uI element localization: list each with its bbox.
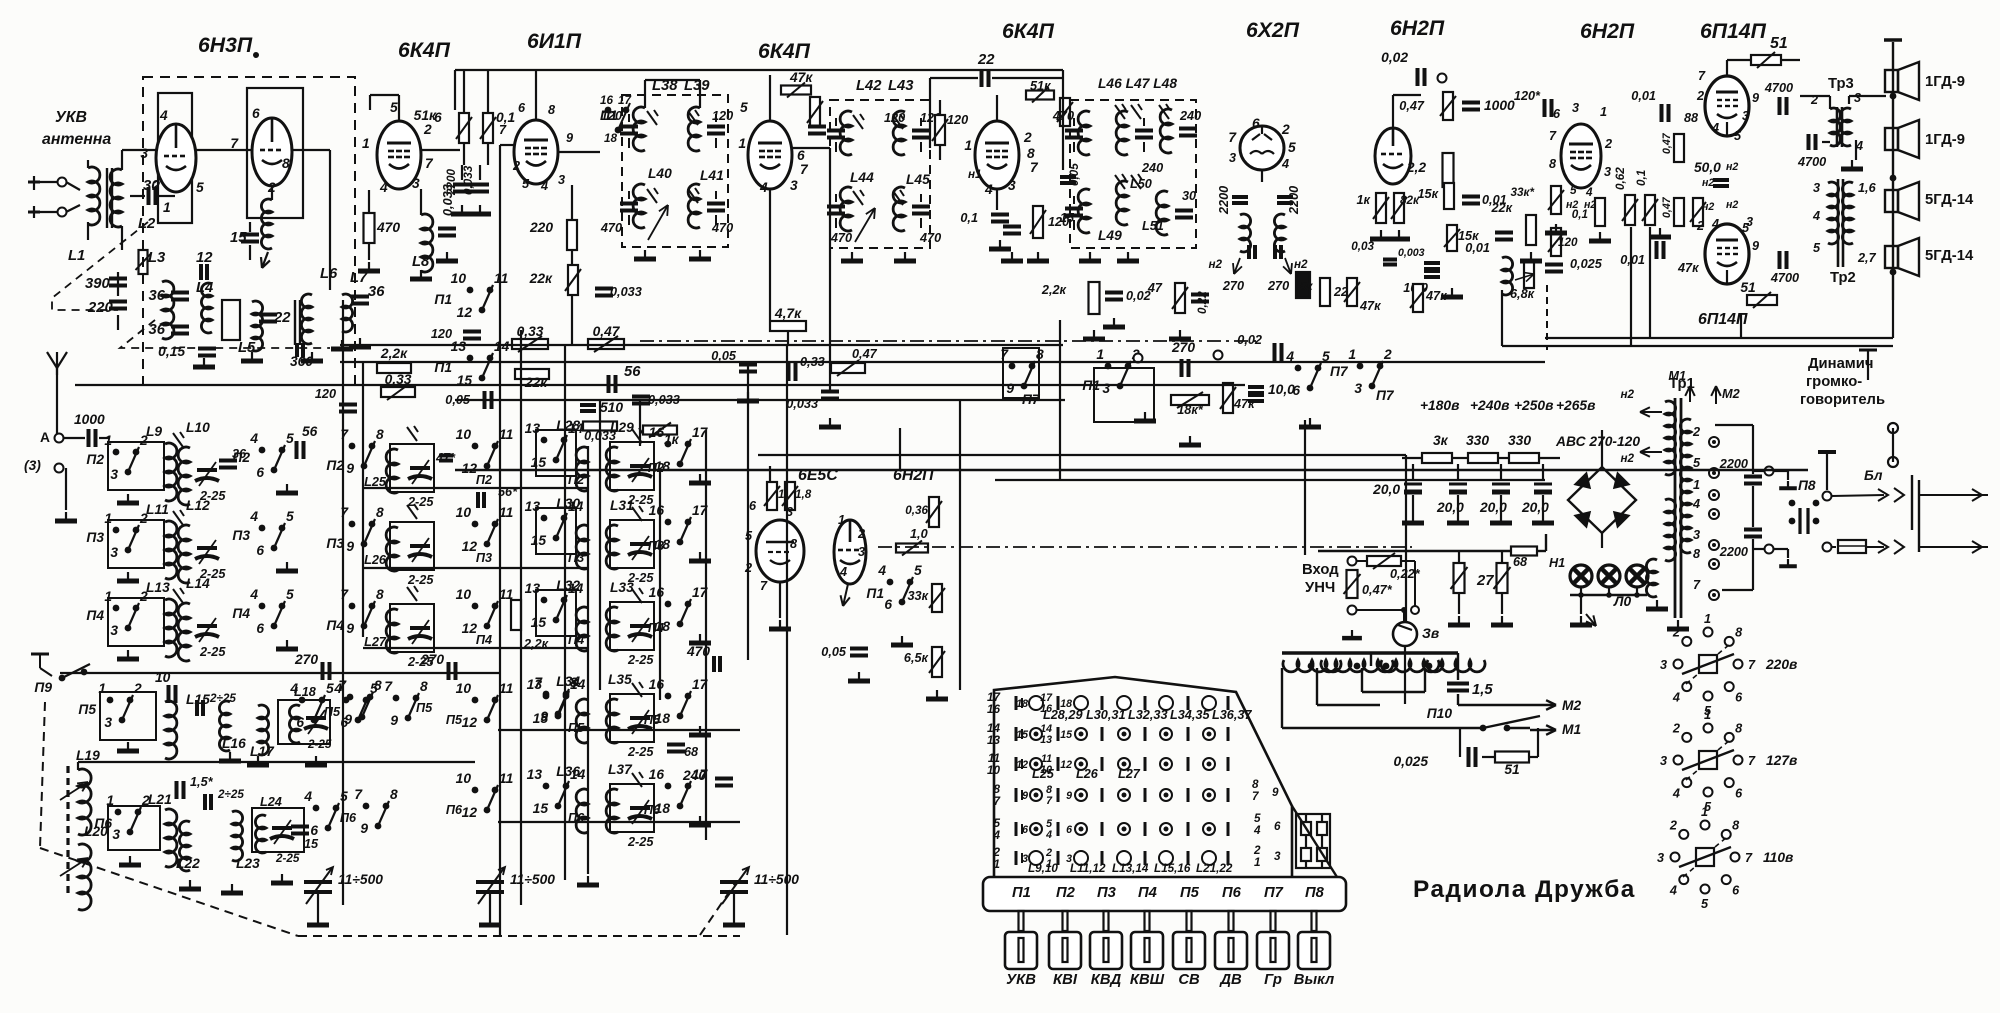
svg-text:36: 36 — [149, 288, 166, 304]
svg-text:11÷500: 11÷500 — [754, 872, 799, 887]
svg-text:16: 16 — [649, 425, 665, 440]
svg-text:М2: М2 — [1562, 698, 1581, 713]
svg-text:4: 4 — [992, 829, 1000, 842]
svg-text:4: 4 — [1672, 787, 1680, 801]
svg-text:L41: L41 — [700, 168, 724, 183]
svg-text:36: 36 — [149, 322, 166, 338]
svg-text:11: 11 — [499, 427, 513, 442]
svg-text:П7: П7 — [1264, 885, 1284, 901]
svg-text:5: 5 — [1701, 897, 1709, 911]
svg-text:1000: 1000 — [74, 412, 105, 427]
svg-text:7: 7 — [1693, 578, 1701, 592]
svg-text:Н1: Н1 — [1549, 556, 1565, 570]
svg-text:5: 5 — [1570, 184, 1577, 197]
svg-text:11÷500: 11÷500 — [510, 872, 555, 887]
svg-text:П4: П4 — [326, 618, 344, 633]
svg-text:2-25: 2-25 — [627, 653, 654, 667]
svg-text:6: 6 — [1732, 884, 1740, 898]
svg-text:КВI: КВI — [1053, 972, 1078, 988]
svg-text:6: 6 — [256, 621, 264, 636]
svg-text:L21,22: L21,22 — [1196, 862, 1233, 875]
svg-text:L34,35: L34,35 — [1170, 708, 1210, 722]
svg-text:47к: 47к — [789, 70, 813, 85]
svg-text:56: 56 — [624, 364, 641, 380]
svg-text:7: 7 — [1698, 69, 1706, 83]
svg-text:6: 6 — [1735, 691, 1743, 705]
svg-text:6И1П: 6И1П — [527, 30, 582, 53]
svg-text:1: 1 — [964, 138, 972, 153]
svg-text:2: 2 — [1383, 347, 1392, 362]
svg-text:1: 1 — [104, 511, 112, 526]
svg-text:5ГД-14: 5ГД-14 — [1925, 248, 1974, 264]
svg-text:2200: 2200 — [1719, 545, 1748, 559]
svg-text:127в: 127в — [1766, 753, 1797, 768]
svg-text:18к*: 18к* — [1177, 403, 1204, 417]
svg-text:36: 36 — [232, 447, 247, 461]
svg-text:9: 9 — [390, 713, 398, 728]
svg-text:10,0: 10,0 — [1268, 382, 1295, 397]
svg-text:4: 4 — [249, 587, 258, 602]
svg-text:6К4П: 6К4П — [1002, 20, 1055, 43]
svg-text:3: 3 — [412, 176, 420, 191]
svg-text:П5: П5 — [446, 713, 463, 727]
svg-text:L44: L44 — [850, 170, 874, 185]
svg-text:13: 13 — [525, 499, 541, 514]
svg-text:2-25: 2-25 — [407, 495, 434, 509]
svg-text:7: 7 — [340, 427, 349, 442]
svg-text:7: 7 — [340, 505, 349, 520]
svg-text:470: 470 — [711, 221, 733, 235]
svg-text:0,1: 0,1 — [1572, 208, 1588, 221]
svg-text:5: 5 — [326, 681, 334, 696]
svg-text:4: 4 — [1253, 824, 1261, 837]
svg-text:12: 12 — [1060, 759, 1072, 771]
svg-text:120: 120 — [947, 113, 968, 127]
svg-text:L36,37: L36,37 — [1212, 708, 1252, 722]
svg-text:3: 3 — [1813, 181, 1820, 195]
svg-text:10: 10 — [456, 505, 472, 520]
svg-text:2-25: 2-25 — [407, 573, 434, 587]
svg-text:КВД: КВД — [1091, 972, 1122, 988]
svg-text:1000: 1000 — [1484, 98, 1515, 113]
svg-text:0,47: 0,47 — [1661, 132, 1673, 154]
svg-text:3: 3 — [1229, 151, 1236, 165]
svg-text:330: 330 — [1508, 433, 1531, 448]
svg-text:н2: н2 — [1208, 258, 1222, 271]
svg-text:П8: П8 — [1798, 478, 1816, 493]
svg-text:П2: П2 — [86, 452, 104, 467]
svg-text:3: 3 — [1746, 215, 1753, 229]
svg-text:П6: П6 — [644, 803, 661, 817]
svg-text:3: 3 — [1657, 851, 1664, 865]
svg-text:6: 6 — [1066, 824, 1072, 836]
svg-text:13: 13 — [525, 581, 541, 596]
svg-text:П4: П4 — [86, 608, 104, 623]
svg-text:L51: L51 — [1142, 219, 1164, 233]
svg-text:15: 15 — [531, 455, 547, 470]
svg-text:15: 15 — [531, 533, 547, 548]
svg-text:8: 8 — [548, 103, 556, 117]
svg-text:4: 4 — [379, 180, 388, 195]
svg-text:0,05: 0,05 — [821, 645, 847, 659]
svg-text:М1: М1 — [1562, 722, 1581, 737]
svg-text:120: 120 — [315, 387, 336, 401]
svg-text:0,22: 0,22 — [1196, 291, 1209, 314]
svg-text:0,01: 0,01 — [1631, 89, 1656, 103]
svg-text:13: 13 — [451, 339, 467, 354]
svg-text:3: 3 — [1854, 91, 1861, 105]
svg-text:6: 6 — [296, 715, 304, 730]
svg-text:9: 9 — [1022, 790, 1028, 802]
svg-text:120: 120 — [884, 111, 905, 125]
svg-text:П6: П6 — [446, 803, 463, 817]
svg-text:22к: 22к — [529, 271, 553, 286]
svg-text:240: 240 — [682, 768, 706, 783]
svg-text:L30,31: L30,31 — [1086, 708, 1126, 722]
svg-text:5: 5 — [286, 509, 294, 524]
svg-text:20,0: 20,0 — [1521, 500, 1549, 515]
svg-text:5: 5 — [1813, 241, 1821, 255]
svg-text:Вход: Вход — [1302, 562, 1339, 578]
svg-text:Гр: Гр — [1264, 972, 1282, 988]
svg-text:1: 1 — [1701, 805, 1708, 819]
svg-text:П3: П3 — [1097, 885, 1117, 901]
svg-text:9: 9 — [346, 461, 354, 476]
svg-text:П2: П2 — [1056, 885, 1076, 901]
svg-text:47к: 47к — [1359, 299, 1381, 313]
svg-text:0,02: 0,02 — [1237, 333, 1262, 347]
svg-text:7: 7 — [1030, 160, 1039, 175]
svg-text:0,02: 0,02 — [1381, 50, 1408, 65]
svg-text:10: 10 — [456, 427, 472, 442]
svg-text:L14: L14 — [186, 576, 210, 591]
svg-text:2,7: 2,7 — [1857, 251, 1877, 265]
svg-text:н2: н2 — [1620, 452, 1634, 465]
svg-text:L9,10: L9,10 — [1028, 862, 1058, 875]
svg-text:П3: П3 — [648, 539, 664, 553]
svg-text:0,47: 0,47 — [593, 324, 621, 339]
svg-text:15: 15 — [304, 837, 319, 851]
svg-text:4: 4 — [159, 108, 168, 123]
svg-text:2: 2 — [1023, 130, 1032, 145]
svg-text:3: 3 — [104, 715, 112, 730]
svg-text:33к*: 33к* — [1511, 186, 1535, 199]
svg-text:12: 12 — [462, 715, 478, 730]
svg-text:68: 68 — [684, 745, 699, 759]
svg-text:3: 3 — [1742, 109, 1749, 123]
svg-text:КВШ: КВШ — [1130, 972, 1165, 988]
svg-text:6: 6 — [1735, 787, 1743, 801]
svg-text:6Х2П: 6Х2П — [1246, 19, 1300, 42]
svg-text:0,01: 0,01 — [1620, 253, 1645, 267]
svg-text:+250в: +250в — [1514, 398, 1553, 413]
svg-text:2-25: 2-25 — [199, 645, 226, 659]
svg-text:390: 390 — [85, 276, 110, 292]
svg-text:27: 27 — [1476, 573, 1494, 589]
svg-text:3: 3 — [1693, 528, 1700, 542]
svg-text:П5: П5 — [644, 713, 661, 727]
svg-text:9: 9 — [1752, 91, 1759, 105]
svg-text:2-25: 2-25 — [307, 738, 332, 751]
svg-text:470: 470 — [919, 231, 941, 245]
svg-text:8: 8 — [376, 427, 384, 442]
svg-text:2,2к: 2,2к — [380, 346, 408, 361]
svg-text:3: 3 — [110, 467, 118, 482]
svg-text:0,1: 0,1 — [960, 211, 978, 225]
svg-text:L23: L23 — [236, 856, 260, 871]
svg-text:М1: М1 — [1668, 369, 1686, 383]
svg-text:3: 3 — [790, 178, 798, 193]
svg-text:L4: L4 — [196, 280, 213, 296]
svg-text:L1: L1 — [68, 248, 85, 264]
svg-text:10: 10 — [456, 771, 472, 786]
svg-text:L16: L16 — [222, 736, 246, 751]
svg-text:2,2: 2,2 — [1406, 160, 1427, 175]
svg-text:6: 6 — [797, 148, 805, 163]
svg-text:3: 3 — [110, 623, 118, 638]
svg-text:L15,16: L15,16 — [1154, 862, 1191, 875]
svg-text:Тр3: Тр3 — [1828, 76, 1854, 92]
svg-text:7: 7 — [1228, 130, 1237, 145]
svg-text:L32: L32 — [556, 578, 580, 593]
svg-text:8: 8 — [282, 156, 290, 171]
svg-text:н1: н1 — [968, 168, 982, 181]
svg-text:6: 6 — [252, 106, 260, 121]
svg-text:220: 220 — [529, 220, 553, 235]
svg-text:7: 7 — [534, 675, 543, 690]
svg-text:3: 3 — [140, 146, 148, 161]
svg-text:13: 13 — [525, 421, 541, 436]
svg-text:8: 8 — [1735, 721, 1743, 735]
svg-text:L28: L28 — [556, 418, 580, 433]
svg-text:4: 4 — [839, 565, 847, 579]
svg-text:4700: 4700 — [1797, 155, 1826, 169]
svg-text:20,0: 20,0 — [1479, 500, 1507, 515]
svg-text:4: 4 — [1585, 186, 1593, 199]
svg-text:3: 3 — [1572, 101, 1579, 115]
svg-text:5: 5 — [1288, 140, 1296, 155]
svg-text:ДВ: ДВ — [1218, 972, 1242, 988]
svg-text:2: 2 — [512, 159, 520, 173]
svg-text:2: 2 — [1604, 137, 1612, 151]
svg-text:120: 120 — [601, 109, 622, 123]
svg-text:4: 4 — [289, 681, 298, 696]
svg-text:1: 1 — [362, 136, 370, 151]
svg-text:4: 4 — [1692, 497, 1700, 511]
svg-text:120: 120 — [431, 327, 452, 341]
svg-text:L42: L42 — [856, 78, 882, 94]
svg-text:11: 11 — [499, 771, 513, 786]
svg-text:56: 56 — [302, 424, 318, 439]
svg-text:П1: П1 — [866, 586, 884, 601]
svg-text:L35: L35 — [608, 672, 632, 687]
svg-text:11: 11 — [499, 505, 513, 520]
svg-text:6: 6 — [256, 465, 264, 480]
svg-text:н2: н2 — [1726, 161, 1738, 173]
svg-text:2: 2 — [423, 122, 432, 137]
svg-text:1: 1 — [1704, 612, 1711, 626]
svg-text:9: 9 — [1752, 239, 1759, 253]
svg-text:L13: L13 — [146, 580, 170, 595]
svg-text:3: 3 — [1660, 658, 1667, 672]
svg-text:4: 4 — [1711, 217, 1719, 231]
svg-text:47*: 47* — [435, 451, 456, 465]
svg-text:П4: П4 — [648, 621, 664, 635]
svg-text:50,0: 50,0 — [1694, 160, 1721, 175]
svg-text:120*: 120* — [1514, 89, 1541, 103]
svg-text:7: 7 — [1748, 658, 1756, 672]
svg-text:7: 7 — [340, 587, 349, 602]
svg-text:L9: L9 — [146, 424, 162, 439]
svg-text:L49: L49 — [1098, 228, 1122, 243]
svg-text:П7: П7 — [1376, 388, 1395, 403]
svg-text:11: 11 — [499, 681, 513, 696]
svg-text:П1: П1 — [1012, 885, 1031, 901]
svg-text:0,15: 0,15 — [158, 344, 185, 359]
svg-text:П8: П8 — [1305, 885, 1325, 901]
svg-text:0,01: 0,01 — [1465, 241, 1490, 255]
svg-text:51: 51 — [1504, 762, 1519, 777]
svg-text:L3: L3 — [148, 250, 166, 266]
svg-text:4: 4 — [540, 179, 548, 193]
svg-text:П3: П3 — [232, 528, 250, 543]
svg-text:П3: П3 — [476, 551, 492, 565]
svg-text:30: 30 — [1182, 189, 1196, 203]
svg-text:П3: П3 — [326, 536, 344, 551]
svg-text:2: 2 — [1672, 721, 1680, 735]
svg-text:14: 14 — [494, 339, 510, 354]
svg-text:6: 6 — [518, 101, 526, 115]
svg-text:8: 8 — [1693, 547, 1701, 561]
svg-text:5: 5 — [914, 563, 922, 578]
svg-text:15к: 15к — [1417, 187, 1438, 201]
svg-text:4: 4 — [1812, 209, 1820, 223]
svg-text:1: 1 — [1348, 347, 1356, 362]
svg-text:9: 9 — [360, 821, 368, 836]
svg-text:+240в: +240в — [1470, 398, 1509, 413]
svg-text:7: 7 — [1252, 790, 1259, 803]
svg-text:2: 2 — [1696, 89, 1704, 103]
svg-text:6Н3П: 6Н3П — [198, 34, 253, 57]
svg-text:7: 7 — [230, 136, 239, 151]
svg-text:4: 4 — [249, 431, 258, 446]
svg-text:12: 12 — [196, 250, 213, 266]
svg-text:1: 1 — [104, 589, 112, 604]
svg-text:5к: 5к — [1300, 280, 1314, 293]
svg-text:240: 240 — [1179, 109, 1201, 123]
svg-text:L26: L26 — [364, 553, 387, 567]
svg-text:4: 4 — [1045, 829, 1052, 841]
svg-text:10: 10 — [451, 271, 467, 286]
svg-text:1: 1 — [1096, 347, 1104, 362]
svg-text:1: 1 — [106, 793, 114, 808]
svg-text:4,7к: 4,7к — [774, 306, 802, 321]
svg-text:15: 15 — [1016, 729, 1029, 741]
svg-text:н2: н2 — [1726, 199, 1738, 211]
svg-text:9: 9 — [344, 712, 352, 727]
svg-text:2: 2 — [1672, 625, 1680, 639]
svg-text:4: 4 — [249, 509, 258, 524]
svg-text:П4: П4 — [476, 633, 492, 647]
svg-text:8: 8 — [420, 679, 428, 694]
svg-text:9: 9 — [346, 539, 354, 554]
svg-text:9: 9 — [1066, 790, 1072, 802]
svg-text:П7: П7 — [1330, 364, 1349, 379]
svg-text:1,5*: 1,5* — [190, 775, 214, 789]
svg-text:220: 220 — [87, 300, 113, 316]
svg-text:0,47: 0,47 — [1661, 196, 1673, 218]
svg-text:5: 5 — [740, 100, 748, 115]
svg-text:П5: П5 — [416, 701, 433, 715]
svg-text:18: 18 — [1016, 698, 1028, 710]
svg-text:1,5: 1,5 — [1472, 682, 1493, 698]
svg-text:0,025: 0,025 — [1393, 754, 1428, 769]
svg-text:7: 7 — [800, 162, 809, 177]
svg-text:Выкл: Выкл — [1294, 972, 1334, 988]
svg-text:47к: 47к — [1677, 261, 1699, 275]
svg-text:16: 16 — [987, 703, 1001, 716]
svg-text:0,47: 0,47 — [1399, 99, 1425, 113]
svg-text:L50: L50 — [1130, 177, 1152, 191]
svg-text:3: 3 — [112, 827, 120, 842]
svg-text:3: 3 — [1008, 178, 1016, 193]
svg-text:12: 12 — [1016, 759, 1028, 771]
svg-text:6: 6 — [310, 823, 318, 838]
svg-text:L30: L30 — [556, 496, 580, 511]
svg-text:L25: L25 — [1032, 767, 1055, 781]
svg-text:330: 330 — [1466, 433, 1489, 448]
svg-text:1: 1 — [738, 136, 746, 151]
svg-text:6К4П: 6К4П — [758, 40, 811, 63]
svg-text:5: 5 — [1734, 129, 1742, 143]
svg-text:П6: П6 — [1222, 885, 1242, 901]
svg-text:4700: 4700 — [1770, 271, 1799, 285]
svg-text:0,03: 0,03 — [1351, 240, 1374, 253]
svg-text:4: 4 — [1711, 121, 1719, 135]
svg-text:4: 4 — [877, 563, 886, 578]
svg-text:51: 51 — [1740, 280, 1755, 295]
svg-text:6: 6 — [884, 597, 892, 612]
svg-text:7: 7 — [1748, 754, 1756, 768]
svg-text:1: 1 — [163, 200, 171, 215]
svg-text:П5: П5 — [1180, 885, 1200, 901]
svg-text:Динамич: Динамич — [1808, 356, 1873, 372]
svg-text:L22: L22 — [176, 856, 200, 871]
svg-text:68: 68 — [1513, 555, 1528, 569]
svg-text:7: 7 — [384, 679, 393, 694]
svg-text:АВС 270-120: АВС 270-120 — [1555, 434, 1640, 449]
svg-text:6: 6 — [1553, 107, 1561, 121]
svg-text:2200: 2200 — [1287, 186, 1301, 215]
svg-text:1: 1 — [993, 858, 1000, 871]
svg-text:2,2к: 2,2к — [1041, 283, 1067, 297]
svg-text:L19: L19 — [76, 748, 100, 763]
svg-text:0,62: 0,62 — [1614, 167, 1627, 190]
svg-text:15: 15 — [1060, 729, 1073, 741]
svg-text:5: 5 — [286, 431, 294, 446]
svg-text:0,47: 0,47 — [852, 347, 878, 361]
svg-text:82к: 82к — [1400, 194, 1420, 207]
svg-text:L31: L31 — [610, 498, 634, 513]
svg-text:L32,33: L32,33 — [1128, 708, 1168, 722]
svg-text:7: 7 — [760, 579, 768, 593]
svg-text:5: 5 — [390, 100, 398, 115]
svg-text:22к: 22к — [524, 375, 548, 390]
svg-text:1ГД-9: 1ГД-9 — [1925, 74, 1965, 90]
svg-text:1: 1 — [1600, 105, 1607, 119]
svg-text:2: 2 — [1696, 219, 1704, 233]
svg-text:9: 9 — [540, 709, 548, 724]
